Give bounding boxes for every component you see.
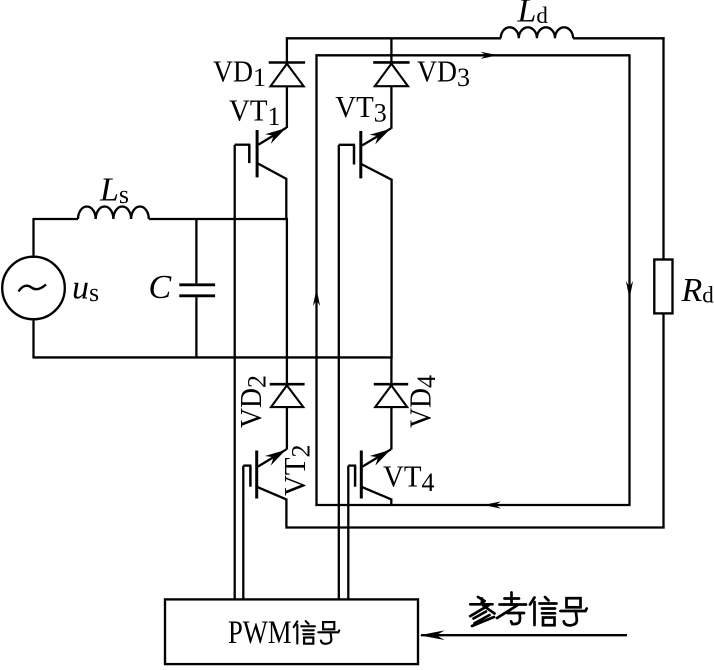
inner loop left rail [315, 54, 317, 506]
outer right rail upper [662, 37, 664, 260]
resistor Rd [654, 260, 672, 314]
inner loop right rail [628, 55, 630, 505]
label VD2 (rotated) [233, 375, 272, 428]
wire: top rail to VD1 [286, 38, 288, 62]
AC source us [2, 257, 65, 320]
diode VD1 [269, 61, 305, 64]
inner loop top rail [315, 54, 630, 56]
diode VD4 [374, 383, 408, 386]
IGBT VT1 [256, 130, 259, 177]
wire: top rail to VD3 [390, 38, 392, 62]
outer top rail [286, 37, 501, 39]
PWM signal block [165, 599, 418, 664]
svg-text:C: C [149, 269, 172, 306]
capacitor C [195, 219, 197, 283]
label VD4 (rotated) [403, 375, 442, 428]
outer right rail lower [662, 313, 664, 528]
reference signal arrow into PWM block [421, 634, 627, 636]
gate lead VT4 to PWM [347, 466, 349, 600]
IGBT VT3 [359, 131, 362, 178]
inner loop bottom rail [315, 504, 630, 506]
current arrow down (right) [626, 281, 633, 299]
wire: bottom AC rail to right leg node B [34, 356, 393, 358]
diode VD3 [373, 61, 409, 64]
diode VD2 [270, 383, 305, 386]
svg-text:PWM: PWM [228, 615, 292, 651]
inductor Ls [78, 207, 149, 220]
current arrow up (left) [313, 289, 320, 307]
wire: source top to Ls [32, 219, 34, 258]
IGBT VT2 [255, 451, 258, 499]
label 参考信号 [478, 597, 485, 601]
wire: VD2 to VT2 [286, 407, 288, 449]
wire: node B down to VD4 [390, 357, 392, 384]
wire: Ls to left leg node A [149, 218, 288, 220]
wire: VD1 to VT1 collector [286, 86, 288, 128]
current arrow left (bottom) [484, 501, 502, 508]
outer bottom rail [286, 526, 665, 528]
gate lead VT2 to PWM [242, 466, 244, 600]
gate lead VT1 to PWM [234, 145, 236, 600]
label VT2 (rotated) [277, 445, 316, 497]
gate lead VT3 to PWM [338, 145, 340, 600]
inductor Ld [501, 27, 573, 38]
svg-text:Ld: Ld [517, 0, 549, 30]
wire: Ld to outer right [573, 37, 665, 39]
wire: source bottom [32, 318, 34, 358]
current arrow right (top) [481, 52, 499, 59]
wire: VD4 to VT4 [390, 407, 392, 449]
wire: VD3 to VT3 collector [390, 86, 392, 129]
IGBT VT4 [360, 451, 363, 499]
wire: node A down to VD2 [286, 219, 288, 384]
